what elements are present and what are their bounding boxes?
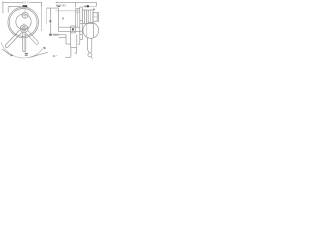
arrow tick near MAX text (57, 5, 60, 7)
lever hub circle (20, 25, 28, 33)
outlet symbol circle (88, 53, 93, 59)
coupling nut on pipe (70, 26, 75, 33)
second dim line right with text (83, 5, 97, 7)
cartridge housing box behind wall (82, 10, 98, 24)
dimension text Ø170 (faint) (22, 1, 30, 5)
diverter center cross / centerline (21, 9, 29, 19)
funnel into outlet symbol (87, 50, 91, 53)
technical drawing: concealed shower mixer, front view left, side view right (0, 0, 100, 64)
horizontal pipe to wall (59, 27, 80, 31)
dimension line right-top (56, 2, 97, 7)
short dim line below MAX (56, 10, 76, 12)
short drop line right of elbow (75, 48, 77, 54)
dark mark above housing step (93, 9, 95, 10)
bottom outlet stub (71, 32, 77, 48)
svg-text:Ø170: Ø170 (22, 1, 30, 5)
hub center cross (19, 24, 29, 34)
bottom small text 1 (53, 54, 58, 58)
lever handle rotated position (down-right) (25, 30, 38, 44)
dimension line second (left, smaller) (8, 6, 21, 13)
arc end arrowhead (44, 47, 46, 50)
chord line in body left (86, 24, 88, 38)
set screw mark on bar (49, 18, 64, 23)
wall plate side view (80, 7, 83, 40)
step bracket below pipe (59, 35, 71, 44)
dark dimension text on second line (22, 5, 27, 7)
leader line to lower-right (31, 52, 48, 57)
dimension line top-left (plate diameter) (3, 1, 42, 13)
valve body circle (83, 23, 99, 39)
inner dome circle (16, 14, 31, 29)
leader elbow bottom-center (65, 48, 71, 58)
chord line in body right (93, 23, 95, 37)
supply pipes below body (87, 38, 91, 51)
lever handle vertical (down position) (23, 32, 26, 52)
escutcheon plate outer circle (8, 7, 39, 38)
escutcheon plate inner rim circle (9, 9, 37, 37)
lever swing arc (1, 43, 44, 58)
lever handle rotated position (down-left) (5, 30, 22, 48)
svg-text:MAX.43: MAX.43 (56, 3, 66, 7)
svg-text:ø-~: ø-~ (53, 54, 58, 58)
protruding cartridge sleeve in front of wall (76, 9, 80, 28)
side view: handle bar (lever seen from side) (47, 8, 59, 33)
leader arrow lower-left (2, 49, 13, 56)
MAX text label (56, 3, 66, 7)
lever hub inner circle (22, 27, 26, 31)
MIN label row (49, 34, 59, 36)
stub below wall plate (78, 40, 80, 45)
extension line between views 1 (41, 4, 43, 31)
diverter knob circle (22, 12, 28, 18)
tiny label under lever tip (25, 53, 28, 56)
